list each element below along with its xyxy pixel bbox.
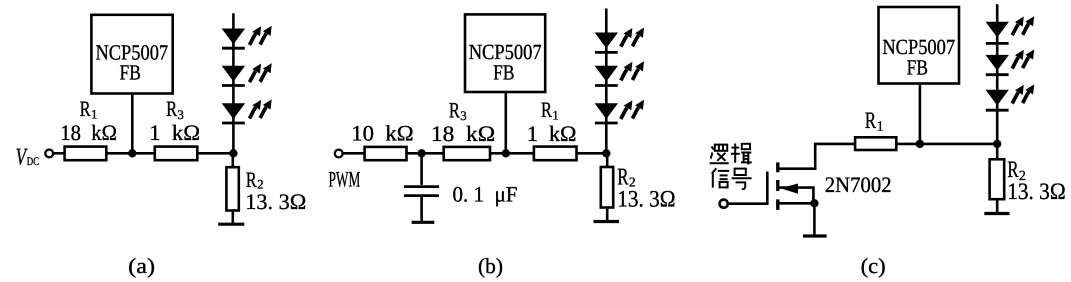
- ground R2 (b): [594, 220, 620, 223]
- wire node to R2 (a): [232, 153, 235, 167]
- channel dash bottom: [776, 199, 779, 210]
- LED D2 (a): [222, 63, 272, 85]
- svg-text:R: R: [541, 97, 552, 122]
- wire drain: [779, 144, 856, 169]
- wire R1 to LED node (b): [577, 152, 607, 155]
- svg-text:R: R: [80, 96, 91, 121]
- resistor R3 (b): [444, 147, 490, 160]
- svg-text:18 kΩ: 18 kΩ: [431, 121, 495, 146]
- svg-text:(a): (a): [128, 254, 155, 278]
- node junction LED/R2 (b): [602, 149, 610, 157]
- node junction FB/R1/R3 (a): [128, 149, 136, 157]
- node junction LED/R2 (c): [993, 140, 1001, 148]
- svg-text:FB: FB: [493, 60, 514, 84]
- wire 10k to R3 (b): [407, 152, 444, 155]
- svg-text:0. 1 μF: 0. 1 μF: [453, 182, 518, 207]
- wire FB pin (a): [131, 94, 134, 154]
- svg-text:1 kΩ: 1 kΩ: [149, 120, 200, 145]
- ground cap (b): [412, 221, 435, 224]
- transistor Q1 2N7002: [767, 144, 855, 210]
- node junction FB (c): [916, 140, 924, 148]
- wire node to R2 (c): [996, 144, 999, 159]
- label ji (Chinese): [731, 144, 752, 165]
- LED D3 (c): [986, 84, 1035, 110]
- resistor R2 (c): [990, 159, 1005, 199]
- ground (a): [218, 223, 244, 226]
- wire R1 to R3: [106, 152, 155, 155]
- svg-text:1: 1: [877, 119, 884, 134]
- wire LED chain (b): [605, 9, 608, 154]
- wire R2 to ground (b): [606, 208, 609, 222]
- IC U1 NCP5007 (c): [879, 7, 960, 84]
- svg-text:18 kΩ: 18 kΩ: [60, 120, 117, 145]
- svg-text:13. 3Ω: 13. 3Ω: [617, 187, 675, 213]
- node junction LED/R2 (a): [229, 149, 237, 157]
- LED D3 (a): [222, 99, 272, 123]
- body arrow: [780, 184, 798, 194]
- svg-text:1 kΩ: 1 kΩ: [527, 121, 577, 146]
- wire node to R2 (b): [606, 153, 609, 167]
- wire R2 to ground (c): [996, 199, 999, 213]
- svg-text:DC: DC: [27, 156, 40, 168]
- wire R3 to LED node: [197, 152, 233, 155]
- LED D2 (c): [986, 49, 1035, 74]
- node logic signal terminal (c): [720, 200, 728, 208]
- svg-text:R: R: [166, 96, 177, 121]
- LED D1 (a): [222, 26, 272, 48]
- IC U1 NCP5007 (b): [465, 14, 545, 92]
- node VDC terminal (a): [45, 150, 53, 158]
- node junction cap (b): [417, 149, 425, 157]
- resistor 10k (b): [365, 147, 407, 160]
- svg-text:PWM: PWM: [329, 167, 361, 192]
- resistor R1 (a): [65, 147, 107, 161]
- LED D3 (b): [595, 100, 644, 123]
- svg-text:(b): (b): [478, 254, 503, 278]
- resistor R1 (b): [534, 147, 577, 161]
- channel dash middle: [776, 180, 779, 191]
- wire R1 to LED node (c): [896, 143, 997, 146]
- wire FB pin (b): [504, 92, 507, 153]
- resistor R2 (a): [226, 167, 238, 210]
- LED D2 (b): [595, 61, 644, 85]
- svg-text:(c): (c): [861, 254, 886, 278]
- label hao (Chinese): [732, 169, 752, 190]
- LED D1 (c): [986, 16, 1035, 43]
- wire source: [779, 202, 816, 205]
- ground R2 (c): [984, 212, 1009, 215]
- wire R2 to ground (a): [232, 211, 235, 225]
- svg-text:2N7002: 2N7002: [825, 172, 892, 197]
- svg-text:FB: FB: [120, 61, 141, 85]
- gate bar: [766, 172, 769, 206]
- resistor R2 (b): [601, 167, 613, 208]
- svg-text:FB: FB: [907, 55, 928, 79]
- wire LED chain (c): [996, 4, 999, 144]
- wire LED chain (a): [232, 13, 235, 153]
- capacitor C1 0.1uF: [404, 153, 439, 221]
- LED D1 (b): [595, 28, 644, 53]
- wire body to source: [779, 188, 814, 204]
- svg-text:10 kΩ: 10 kΩ: [351, 120, 413, 145]
- node junction FB (b): [502, 149, 510, 157]
- svg-text:R: R: [449, 97, 460, 122]
- svg-text:13. 3Ω: 13. 3Ω: [1007, 179, 1065, 205]
- wire R3 to R1 (b): [490, 152, 534, 155]
- wire VDC to R1: [53, 152, 64, 155]
- IC U1 NCP5007 (a): [91, 15, 172, 94]
- label luoji (Chinese: logic): [710, 145, 729, 164]
- resistor R1 (c): [855, 137, 896, 150]
- wire terminal to gate: [728, 202, 767, 205]
- wire source to ground: [813, 203, 816, 236]
- channel dash top: [776, 162, 779, 172]
- ground MOSFET (c): [803, 234, 827, 237]
- wire PWM to 10k: [343, 152, 365, 155]
- node source junction (c): [810, 199, 818, 207]
- svg-text:13. 3Ω: 13. 3Ω: [245, 189, 306, 214]
- wire FB pin (c): [919, 84, 922, 144]
- svg-text:R: R: [865, 108, 876, 134]
- label xin (Chinese): [712, 168, 729, 187]
- node PWM terminal (b): [335, 150, 343, 158]
- resistor R3 (a): [155, 147, 198, 161]
